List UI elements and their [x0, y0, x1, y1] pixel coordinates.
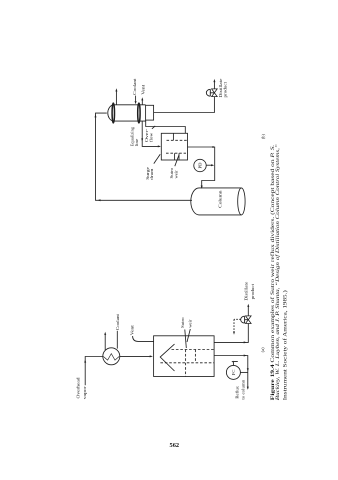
svg-text:Coolant: Coolant [115, 313, 120, 330]
svg-text:Reflux: Reflux [235, 385, 240, 398]
svg-text:FC: FC [231, 370, 236, 376]
svg-text:(a): (a) [260, 347, 265, 352]
svg-text:Sutro: Sutro [180, 317, 185, 328]
svg-text:(b): (b) [260, 134, 265, 140]
svg-text:Overhead: Overhead [75, 377, 80, 399]
svg-text:Buckley, W. L. Luyben, and J.: Buckley, W. L. Luyben, and J. P. Shunta,… [274, 144, 281, 400]
svg-text:weir: weir [173, 170, 178, 179]
svg-text:562: 562 [170, 442, 180, 449]
svg-text:flow: flow [149, 132, 154, 142]
svg-text:weir: weir [187, 319, 192, 328]
svg-text:product: product [223, 81, 228, 97]
svg-text:PD: PD [198, 162, 203, 169]
svg-text:Coolant: Coolant [132, 78, 137, 95]
svg-text:Instrument Society of America,: Instrument Society of America, 1985.) [281, 290, 288, 400]
svg-text:line: line [134, 139, 139, 147]
svg-text:to column: to column [240, 379, 245, 400]
svg-text:Vent: Vent [130, 324, 135, 335]
svg-text:vapor: vapor [82, 386, 87, 400]
svg-text:drum: drum [149, 168, 154, 180]
svg-text:Column: Column [217, 190, 222, 208]
svg-text:Vent: Vent [140, 84, 145, 95]
svg-text:Distillate: Distillate [243, 282, 248, 301]
svg-text:product: product [250, 283, 255, 299]
